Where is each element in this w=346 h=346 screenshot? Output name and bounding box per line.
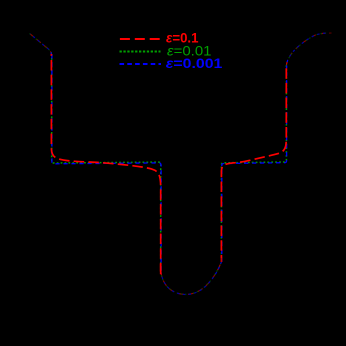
red curve: left vertical + S-plateau + interior left vertical (on top) (51, 54, 160, 272)
dim overlay on bottom U (156, 275, 227, 300)
blue curve: left vertical + plateau + interior left vertical (52, 54, 161, 271)
red curve: interior right vertical + S-plateau + right vertical (on top) (221, 66, 286, 263)
red curve: faint tail at end of top-right arc (329, 32, 332, 34)
legend sample: red long dash (120, 38, 160, 40)
dim overlay on top-right arc (288, 27, 334, 64)
dim overlay on U right shoulder (214, 258, 227, 275)
svg-text:ε=0.001: ε=0.001 (166, 55, 223, 71)
blue curve: bottom U segment (161, 262, 222, 295)
red curve: bottom U segment (161, 262, 222, 295)
red curve: top-right arc segment (286, 33, 328, 66)
blue curve: top-right arc segment (286, 33, 328, 66)
green curve: interior right vertical + right plateau + right vertical (221, 66, 286, 263)
dim overlay on top-left diagonal (25, 28, 51, 53)
blue curve: interior right vertical + right plateau + right vertical (222, 66, 287, 263)
red curve: terminal dash at bottom of interior left vertical (160, 264, 162, 274)
green curve: bottom U segment (161, 261, 222, 294)
blue curve: top-left diagonal segment (30, 34, 51, 56)
red curve: top-left diagonal segment (30, 34, 51, 56)
green curve: left vertical + plateau + interior left vertical (52, 54, 161, 272)
green curve: top-right arc segment (286, 33, 327, 66)
legend sample: green dotted (120, 51, 161, 53)
legend sample: blue dashed (120, 63, 162, 65)
green curve: top-left diagonal segment (30, 34, 52, 55)
